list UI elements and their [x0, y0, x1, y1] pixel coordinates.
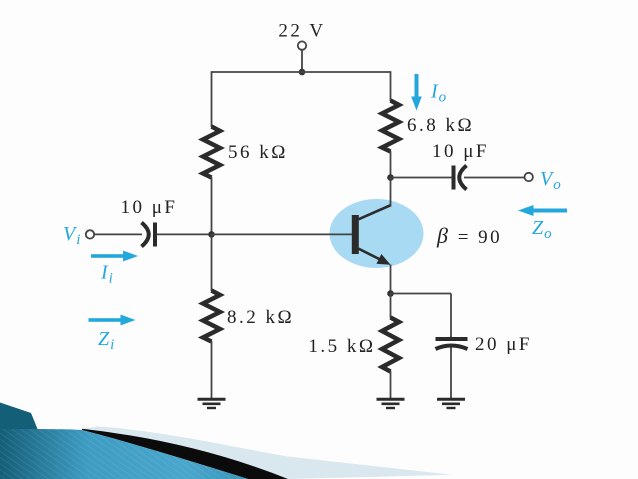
- svg-text:Zo: Zo: [532, 217, 553, 242]
- svg-text:56 kΩ: 56 kΩ: [228, 142, 288, 163]
- svg-text:10 μF: 10 μF: [121, 197, 178, 218]
- transistor Q1 emitter lead: [359, 249, 389, 264]
- wire collector node to C2: [391, 177, 453, 179]
- wire rail to R1: [211, 71, 213, 127]
- transistor Q1 highlight ellipse: [330, 199, 424, 268]
- capacitor C3 20uF curved plate: [436, 346, 468, 350]
- transistor Q1 base bar: [352, 215, 359, 254]
- resistor R4 1.5 kOhm: [382, 318, 399, 372]
- wire collector lead to node: [390, 178, 392, 206]
- svg-text:Vi: Vi: [63, 223, 81, 248]
- svg-text:1.5 kΩ: 1.5 kΩ: [308, 336, 375, 357]
- wire rail to R3: [390, 71, 392, 101]
- wire C3 branch down: [450, 294, 452, 338]
- ground C3: [437, 399, 465, 408]
- capacitor C1 10uF straight plate: [153, 223, 157, 247]
- wire C1 to base node: [157, 233, 212, 235]
- junction VCC rail: [299, 69, 306, 76]
- svg-text:22 V: 22 V: [278, 21, 325, 42]
- junction emitter node: [387, 290, 394, 297]
- wire emitter node to C3 branch: [391, 293, 452, 295]
- ground R2: [198, 399, 226, 408]
- wire base node to R2: [211, 234, 213, 291]
- svg-text:Zi: Zi: [98, 328, 115, 353]
- capacitor C2 10uF curved plate: [459, 166, 466, 190]
- terminal Vi: [86, 230, 94, 238]
- wire VCC stub: [301, 50, 303, 71]
- capacitor C2 10uF straight plate: [452, 166, 456, 190]
- resistor R1 56 kOhm: [203, 127, 220, 178]
- resistor R3 6.8 kOhm: [382, 101, 399, 152]
- impedance arrow Zo: [518, 205, 567, 216]
- wire top rail: [212, 71, 391, 73]
- svg-text:10 μF: 10 μF: [432, 141, 489, 162]
- svg-text:Vo: Vo: [540, 168, 562, 193]
- svg-text:20 μF: 20 μF: [475, 334, 532, 355]
- junction base node: [208, 231, 215, 238]
- wire R4 to ground: [390, 371, 392, 398]
- capacitor C1 10uF curved plate: [142, 223, 149, 247]
- wire base node to transistor base: [212, 233, 353, 235]
- transistor Q1 emitter arrow: [376, 254, 390, 265]
- wire R3 to collector node: [390, 151, 392, 178]
- current arrow Io: [411, 74, 422, 111]
- wire R1 to base node: [211, 177, 213, 234]
- resistor R2 8.2 kOhm: [203, 291, 220, 342]
- junction collector node: [387, 174, 394, 181]
- svg-text:Io: Io: [430, 81, 447, 106]
- wire emitter lead to node: [390, 265, 392, 294]
- current arrow Ii: [91, 251, 138, 262]
- ground R4: [377, 399, 405, 408]
- transistor Q1 collector lead: [359, 205, 392, 219]
- wire C2 to Vo: [464, 177, 525, 179]
- terminal Vo: [525, 173, 533, 181]
- svg-text:6.8 kΩ: 6.8 kΩ: [407, 115, 474, 136]
- wire emitter node to R4: [390, 294, 392, 319]
- node VCC 22 V terminal: [298, 41, 306, 49]
- wire R2 to ground: [211, 341, 213, 398]
- svg-text:Ii: Ii: [100, 262, 114, 287]
- wire C3 to ground: [450, 348, 452, 399]
- svg-text:8.2 kΩ: 8.2 kΩ: [227, 307, 294, 328]
- wire Vi to C1: [94, 233, 142, 235]
- svg-text:β = 90: β = 90: [436, 223, 502, 248]
- impedance arrow Zi: [89, 315, 136, 326]
- capacitor C3 20uF straight plate: [436, 337, 468, 341]
